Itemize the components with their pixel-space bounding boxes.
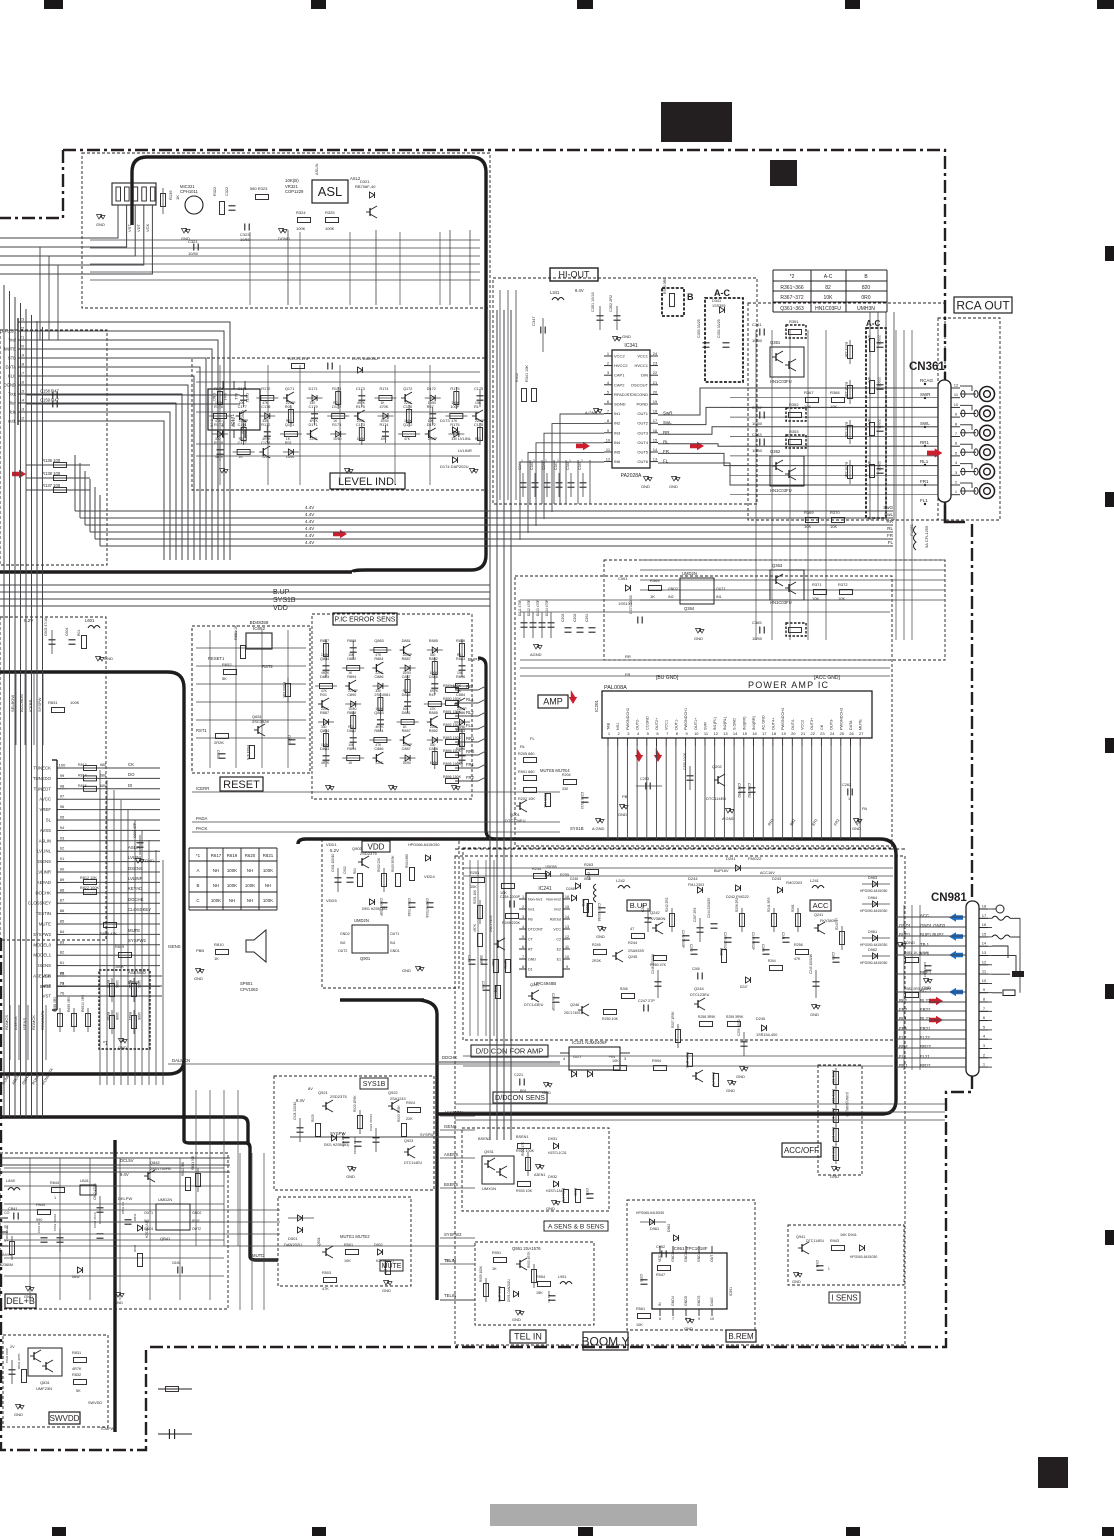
svg-text:R136 100: R136 100 [42, 458, 61, 463]
svg-text:Non-Inv2: Non-Inv2 [546, 898, 561, 902]
svg-text:5K: 5K [76, 1389, 81, 1393]
svg-text:Q361: Q361 [770, 340, 781, 345]
svg-text:R933 10K: R933 10K [516, 1189, 533, 1193]
svg-text:D173: D173 [440, 418, 450, 423]
tuner section dashed box top-left [82, 153, 490, 308]
svg-text:FL1: FL1 [466, 723, 474, 728]
capacitor C941 [817, 1265, 824, 1267]
svg-text:ASL: ASL [318, 184, 343, 199]
label BOOM.Y [583, 1332, 628, 1350]
svg-text:A GND: A GND [722, 816, 735, 821]
blue arrow cn981 ac [949, 988, 963, 996]
svg-text:8.4V: 8.4V [575, 288, 584, 293]
resistor R819 100K [119, 953, 132, 958]
svg-text:CCGND: CCGND [645, 716, 649, 730]
svg-text:GND: GND [118, 1045, 127, 1050]
cn981 squiggle pin15 [992, 935, 1010, 939]
transistor C177 [239, 412, 241, 420]
capacitor CB41 [13, 1213, 15, 1220]
transistor D172 [428, 430, 430, 438]
svg-text:OUT1: OUT1 [716, 587, 726, 591]
svg-text:R207 1R5K: R207 1R5K [671, 1011, 675, 1028]
svg-text:C173: C173 [356, 387, 365, 391]
svg-text:95: 95 [60, 815, 65, 820]
diode D963 HPG065-6415G50 [873, 881, 878, 887]
svg-text:ASENSO: ASENSO [128, 970, 147, 975]
resistor R01 vdd [358, 874, 363, 887]
svg-text:820: 820 [862, 285, 871, 291]
svg-text:ROMCK: ROMCK [31, 1015, 36, 1030]
svg-text:1K: 1K [175, 195, 180, 200]
label TEL IN [510, 1330, 546, 1343]
svg-text:DO: DO [128, 772, 135, 777]
label SYS1B top [360, 1078, 388, 1089]
svg-text:D951 DAN202U: D951 DAN202U [507, 1278, 511, 1302]
svg-text:DTC123EU: DTC123EU [690, 993, 710, 997]
svg-text:C903 4700P: C903 4700P [379, 898, 383, 916]
svg-text:2R2K: 2R2K [214, 740, 224, 745]
svg-text:GND2: GND2 [192, 1211, 202, 1215]
capacitor C354 [723, 342, 730, 344]
svg-text:D341: D341 [712, 299, 721, 303]
resistor R891 150K [446, 714, 459, 719]
svg-text:GND: GND [194, 976, 203, 981]
svg-text:D171 DA204U: D171 DA204U [352, 356, 378, 361]
svg-text:H2S11L(A1): H2S11L(A1) [145, 1221, 149, 1238]
svg-text:470: 470 [867, 419, 871, 425]
svg-text:15: 15 [982, 931, 987, 936]
svg-text:Non-Inv1: Non-Inv1 [528, 898, 543, 902]
ground ddcon2 [731, 1080, 733, 1084]
svg-text:BSEN2: BSEN2 [478, 1137, 490, 1141]
svg-text:R261: R261 [791, 904, 795, 912]
svg-text:DELPW: DELPW [118, 1196, 132, 1201]
svg-text:14: 14 [982, 941, 987, 946]
resistor R503 47K [324, 1278, 337, 1283]
tuner block connector [112, 183, 156, 205]
svg-text:VDT: VDT [136, 223, 141, 232]
svg-text:R951: R951 [492, 1251, 501, 1255]
svg-text:0R0: 0R0 [861, 295, 870, 301]
svg-text:GND5: GND5 [684, 1296, 688, 1306]
ground swvdd [19, 1404, 21, 1408]
svg-text:C921 220/10: C921 220/10 [293, 1102, 297, 1120]
svg-text:C941: C941 [815, 1260, 819, 1268]
svg-text:100K: 100K [430, 761, 439, 765]
black logo block [661, 102, 732, 142]
coil L951 [560, 1282, 572, 1285]
svg-text:C255 100/16: C255 100/16 [597, 903, 601, 921]
svg-text:R250 10K: R250 10K [602, 1017, 619, 1021]
diode D244 FMJ-2303 [698, 887, 703, 893]
svg-text:AGND: AGND [530, 652, 542, 657]
svg-text:HPG060-6415G50: HPG060-6415G50 [850, 1255, 877, 1259]
svg-text:HPG050-6415G50: HPG050-6415G50 [860, 943, 887, 947]
svg-text:R652: R652 [222, 662, 232, 667]
svg-text:C175: C175 [474, 387, 483, 391]
resistor R502 47K [386, 1262, 391, 1275]
svg-text:R264: R264 [768, 959, 776, 963]
resistor R892 150K [446, 727, 459, 732]
resistor R896 [456, 684, 469, 689]
svg-text:R887: R887 [320, 711, 329, 715]
wire del+b internals [4, 1167, 224, 1169]
ground pa gnd pins [647, 476, 649, 480]
svg-text:R176: R176 [214, 405, 223, 409]
capacitor C367 2200P [877, 426, 884, 428]
svg-text:24: 24 [830, 731, 835, 736]
resistor R258 47K [796, 950, 809, 955]
svg-text:CLOSSKEY: CLOSSKEY [128, 907, 151, 912]
svg-text:VCC1: VCC1 [637, 354, 648, 359]
svg-text:GND: GND [542, 1090, 551, 1095]
svg-text:2200P: 2200P [877, 377, 881, 388]
svg-text:FB45: FB45 [36, 1203, 45, 1207]
svg-text:3300P: 3300P [479, 955, 483, 964]
svg-text:DOCHK: DOCHK [128, 897, 144, 902]
wire power amp pin drops [607, 746, 609, 839]
svg-text:C904 470/16: C904 470/16 [407, 898, 411, 916]
svg-text:TEL IN: TEL IN [514, 1332, 542, 1342]
svg-text:R810: R810 [214, 942, 224, 947]
svg-text:R887: R887 [320, 639, 329, 643]
svg-text:R266: R266 [620, 987, 628, 991]
resistor R369 10K [806, 518, 819, 523]
svg-text:KEYAD: KEYAD [37, 880, 51, 885]
svg-text:D963: D963 [868, 876, 877, 880]
wire micro fanout [66, 767, 160, 769]
wire mid horizontal bundle 855-880 [455, 848, 905, 850]
resistor R993 47K [714, 1074, 719, 1087]
resistor R904 680 [410, 868, 415, 881]
svg-text:10K: 10K [470, 885, 477, 889]
svg-text:R501: R501 [344, 1243, 353, 1247]
svg-text:D903: D903 [420, 836, 430, 841]
capacitor C266 mid [763, 949, 770, 951]
resistor R982 0R0 [906, 993, 919, 998]
fet Q242 FKV380N [655, 924, 657, 932]
svg-text:BD48358: BD48358 [250, 620, 269, 625]
svg-text:10/50: 10/50 [403, 761, 411, 765]
svg-text:ACC/OFF: ACC/OFF [784, 1146, 819, 1155]
transistor C886 [375, 754, 377, 762]
resistor R203 10K [546, 794, 551, 807]
svg-text:680: 680 [100, 763, 106, 767]
svg-text:D1: D1 [528, 968, 533, 972]
svg-text:A: A [197, 868, 200, 873]
resistor R369b 1K [649, 586, 662, 591]
svg-text:3: 3 [624, 1057, 626, 1061]
capacitor C923 100/10 [355, 1141, 362, 1143]
svg-text:R922 1R5K: R922 1R5K [353, 1095, 357, 1112]
svg-text:CN361: CN361 [909, 361, 945, 373]
wire telin [440, 1299, 475, 1301]
resistor R894 150K [446, 753, 459, 758]
diode R01 [288, 449, 293, 455]
thick box top-left section [0, 157, 486, 572]
ic Q931 UMX1N [482, 1156, 514, 1184]
svg-text:10: 10 [694, 731, 699, 736]
svg-text:R904 680: R904 680 [405, 854, 409, 868]
svg-text:R831: R831 [48, 700, 58, 705]
capacitor C363 10/50 [759, 439, 761, 446]
svg-text:TESTIN: TESTIN [36, 911, 51, 916]
svg-text:FKV380N: FKV380N [648, 916, 665, 921]
svg-text:GND: GND [852, 826, 861, 831]
red arrow down bus2 [654, 748, 662, 762]
svg-text:CPH1011: CPH1011 [180, 189, 199, 194]
blue arrow cn981 acc [949, 913, 963, 921]
svg-text:IN1: IN1 [390, 941, 396, 945]
blue arrow cn981 ill [949, 951, 963, 959]
svg-text:ACCMON: ACCMON [444, 1110, 463, 1115]
resistor D172 [332, 414, 345, 419]
svg-text:MUTD: MUTD [252, 1253, 264, 1258]
svg-text:C202: C202 [573, 614, 577, 622]
svg-text:RL: RL [520, 744, 526, 749]
wire tuner section horizontals [90, 239, 480, 241]
svg-text:GND: GND [792, 1279, 801, 1284]
diode D246b [576, 883, 581, 889]
resistor R903 3R3K [396, 874, 401, 887]
svg-text:E1: E1 [557, 958, 561, 962]
svg-text:R263: R263 [584, 863, 593, 867]
svg-text:TCMPW: TCMPW [100, 1427, 115, 1431]
svg-text:10K: 10K [612, 1059, 619, 1063]
svg-text:SYSPW: SYSPW [37, 697, 42, 712]
svg-text:IN4: IN4 [614, 440, 621, 445]
svg-text:RB42 330: RB42 330 [181, 1162, 185, 1176]
svg-text:C365: C365 [752, 620, 762, 625]
svg-text:UMD2N: UMD2N [354, 918, 369, 923]
svg-text:R561: R561 [636, 1307, 645, 1311]
svg-text:D881: D881 [402, 639, 411, 643]
svg-text:C267 2R2: C267 2R2 [693, 907, 697, 922]
connector CN981 body [966, 901, 979, 1076]
capacitor C952 [661, 1251, 663, 1258]
resistor R379 470 [870, 423, 875, 436]
label A SENS & B SENS [544, 1221, 608, 1231]
transistor Q921 2SD2375 [325, 1102, 327, 1110]
svg-text:15: 15 [653, 437, 658, 442]
svg-text:R138 100: R138 100 [42, 471, 61, 476]
capacitor C175 [477, 395, 484, 397]
svg-text:15: 15 [565, 905, 569, 909]
resistor R01 [288, 410, 293, 423]
svg-text:91: 91 [60, 856, 65, 861]
resistor R954 15K [538, 1282, 551, 1287]
svg-text:OUT4: OUT4 [637, 440, 648, 445]
svg-text:C261: C261 [585, 614, 589, 622]
svg-text:CN981: CN981 [931, 892, 967, 904]
svg-text:D243: D243 [772, 877, 781, 881]
svg-text:IN1: IN1 [716, 595, 722, 599]
resistor R933 10K [518, 1182, 531, 1187]
resistor R367 10K [806, 398, 819, 403]
svg-text:Q923: Q923 [404, 1139, 413, 1143]
svg-text:D174 DAP202U: D174 DAP202U [440, 464, 469, 469]
wire bundle rca to cn [640, 559, 945, 561]
svg-text:GND4: GND4 [671, 1296, 675, 1306]
svg-text:RR: RR [625, 654, 631, 659]
svg-text:10/50: 10/50 [752, 448, 763, 453]
transistor Q201 DTC124EU [519, 802, 521, 810]
svg-text:100P: 100P [450, 405, 459, 409]
coil L601 [88, 626, 100, 629]
svg-text:C653: C653 [216, 750, 220, 759]
capacitor R47 [429, 413, 436, 415]
resistor R370 10K [832, 518, 845, 523]
svg-text:ASENS: ASENS [13, 1016, 18, 1030]
svg-text:87: 87 [60, 898, 65, 903]
svg-text:C253: C253 [640, 777, 649, 781]
resistor Q883 [374, 648, 387, 653]
svg-text:MUTE: MUTE [39, 922, 51, 927]
svg-text:ACCMON: ACCMON [19, 694, 24, 712]
ground telin [519, 1310, 521, 1314]
svg-text:R204: R204 [562, 773, 571, 777]
svg-text:100K: 100K [263, 898, 273, 903]
svg-text:R892 150K: R892 150K [443, 723, 462, 727]
svg-text:HI-OUT: HI-OUT [559, 270, 590, 280]
capacitor C249 mid [645, 917, 652, 919]
svg-text:1: 1 [828, 1267, 830, 1271]
svg-text:2SD1760FB: 2SD1760FB [150, 1167, 171, 1171]
svg-text:OUT3-: OUT3- [830, 718, 834, 730]
svg-text:100K: 100K [70, 700, 80, 705]
thick bus stub into mute [436, 1240, 438, 1260]
resistor Q171 [284, 432, 297, 437]
resistor R924 22K [408, 1108, 421, 1113]
svg-text:C901 100/10: C901 100/10 [331, 854, 335, 872]
wire thick left stub top [130, 172, 133, 225]
svg-text:Q172: Q172 [403, 387, 412, 391]
svg-text:VST: VST [127, 224, 132, 232]
svg-text:IN2: IN2 [340, 941, 346, 945]
IC951 TPC1018F remote driver [652, 1253, 727, 1309]
svg-text:R953 4R7K: R953 4R7K [497, 1286, 501, 1303]
svg-text:OUT: OUT [710, 1254, 714, 1262]
svg-text:OUT2: OUT2 [338, 949, 347, 953]
svg-text:C886: C886 [374, 675, 383, 679]
svg-text:GND: GND [24, 1294, 33, 1299]
svg-text:D213 470P: D213 470P [536, 599, 540, 616]
svg-text:C952: C952 [656, 1245, 665, 1249]
red arrow down amp [569, 690, 577, 704]
svg-text:IN2(RL): IN2(RL) [723, 716, 727, 730]
svg-text:*1: *1 [196, 853, 201, 858]
resistor R925 [316, 1124, 321, 1137]
diode D173 DAN202U [453, 427, 458, 433]
transistor Q362 HN1C03FU [770, 456, 804, 486]
svg-text:AVSS: AVSS [40, 828, 51, 833]
svg-text:RR1: RR1 [920, 440, 929, 445]
IC241 UPC4948B [526, 893, 563, 977]
capacitor C346 [544, 482, 551, 484]
diode D061 1SS133 [626, 585, 631, 591]
svg-text:VCC2: VCC2 [614, 354, 625, 359]
resistor R249 220K [506, 914, 519, 919]
capacitor Q883 [377, 719, 384, 721]
capacitor C259 10/50 [741, 1041, 748, 1043]
transistor Q501 [325, 1248, 327, 1256]
resistor R376 22K [848, 466, 853, 479]
wire bottom left horizontals [0, 1209, 280, 1211]
svg-text:17: 17 [762, 731, 767, 736]
svg-text:DI: DI [128, 783, 132, 788]
wire micro vck vdt vst rows [66, 975, 162, 977]
diode D341 1SS355 [720, 307, 725, 313]
svg-text:20: 20 [653, 389, 658, 394]
svg-text:470: 470 [867, 461, 871, 467]
svg-text:C260: C260 [481, 981, 485, 989]
svg-text:76: 76 [60, 991, 65, 996]
svg-text:2SD2375: 2SD2375 [330, 1094, 347, 1099]
svg-text:DSENS: DSENS [36, 859, 51, 864]
svg-text:4.4V: 4.4V [305, 512, 314, 517]
svg-text:23: 23 [820, 731, 825, 736]
capacitor C951 [549, 1295, 556, 1297]
capacitor C842 47/16 [97, 1207, 104, 1209]
capacitor CB41b R1 [125, 1219, 132, 1221]
svg-text:SYS1B: SYS1B [363, 1081, 386, 1088]
svg-text:16: 16 [653, 428, 658, 433]
diode R886 [460, 719, 465, 725]
svg-text:R175: R175 [450, 423, 459, 427]
svg-text:IN1: IN1 [614, 411, 621, 416]
svg-text:NH: NH [213, 868, 219, 873]
wire fan from DSP pins [26, 322, 230, 560]
svg-text:102K: 102K [491, 959, 495, 967]
svg-text:22: 22 [653, 370, 658, 375]
swvdd section dashed box [3, 1335, 108, 1427]
svg-text:IC951 TPC1018F: IC951 TPC1018F [673, 1246, 708, 1251]
resistor R994 [654, 1066, 667, 1071]
svg-text:R258: R258 [794, 943, 803, 947]
resistor R251 330 [834, 1072, 839, 1085]
svg-text:R815: R815 [78, 784, 87, 788]
svg-text:16: 16 [982, 922, 987, 927]
svg-text:DATA: DATA [849, 720, 853, 730]
svg-text:88: 88 [60, 887, 65, 892]
svg-text:1K: 1K [214, 956, 219, 961]
svg-text:R241 3R3: R241 3R3 [767, 897, 771, 912]
svg-text:R324: R324 [296, 210, 306, 215]
resistor R341 10K [532, 389, 537, 402]
svg-text:BSENS: BSENS [444, 1182, 458, 1187]
svg-text:Q951 2SA1576: Q951 2SA1576 [512, 1246, 541, 1251]
svg-text:OUT4-: OUT4- [791, 718, 795, 730]
svg-text:1K: 1K [492, 1267, 497, 1271]
svg-text:330: 330 [451, 437, 457, 441]
resistor R247 4R7K [478, 934, 483, 947]
svg-text:13: 13 [653, 457, 658, 462]
label VDD [362, 841, 390, 852]
svg-text:CK: CK [128, 762, 134, 767]
diode D174 DAP202U [453, 457, 458, 463]
svg-text:MUTE: MUTE [859, 719, 863, 730]
diode D241 FMG22 top [736, 865, 741, 871]
resistor R221 47K [588, 904, 593, 917]
svg-text:10K: 10K [380, 437, 387, 441]
svg-text:R896 150K: R896 150K [443, 775, 462, 779]
transistor Q941 DTC114EU [801, 1244, 803, 1252]
svg-text:GND3: GND3 [671, 1252, 675, 1262]
resistor R931 100K [518, 1144, 531, 1149]
wire rca pin rows [730, 387, 938, 389]
svg-text:GNDS: GNDS [697, 1295, 701, 1306]
svg-text:11: 11 [565, 945, 569, 949]
